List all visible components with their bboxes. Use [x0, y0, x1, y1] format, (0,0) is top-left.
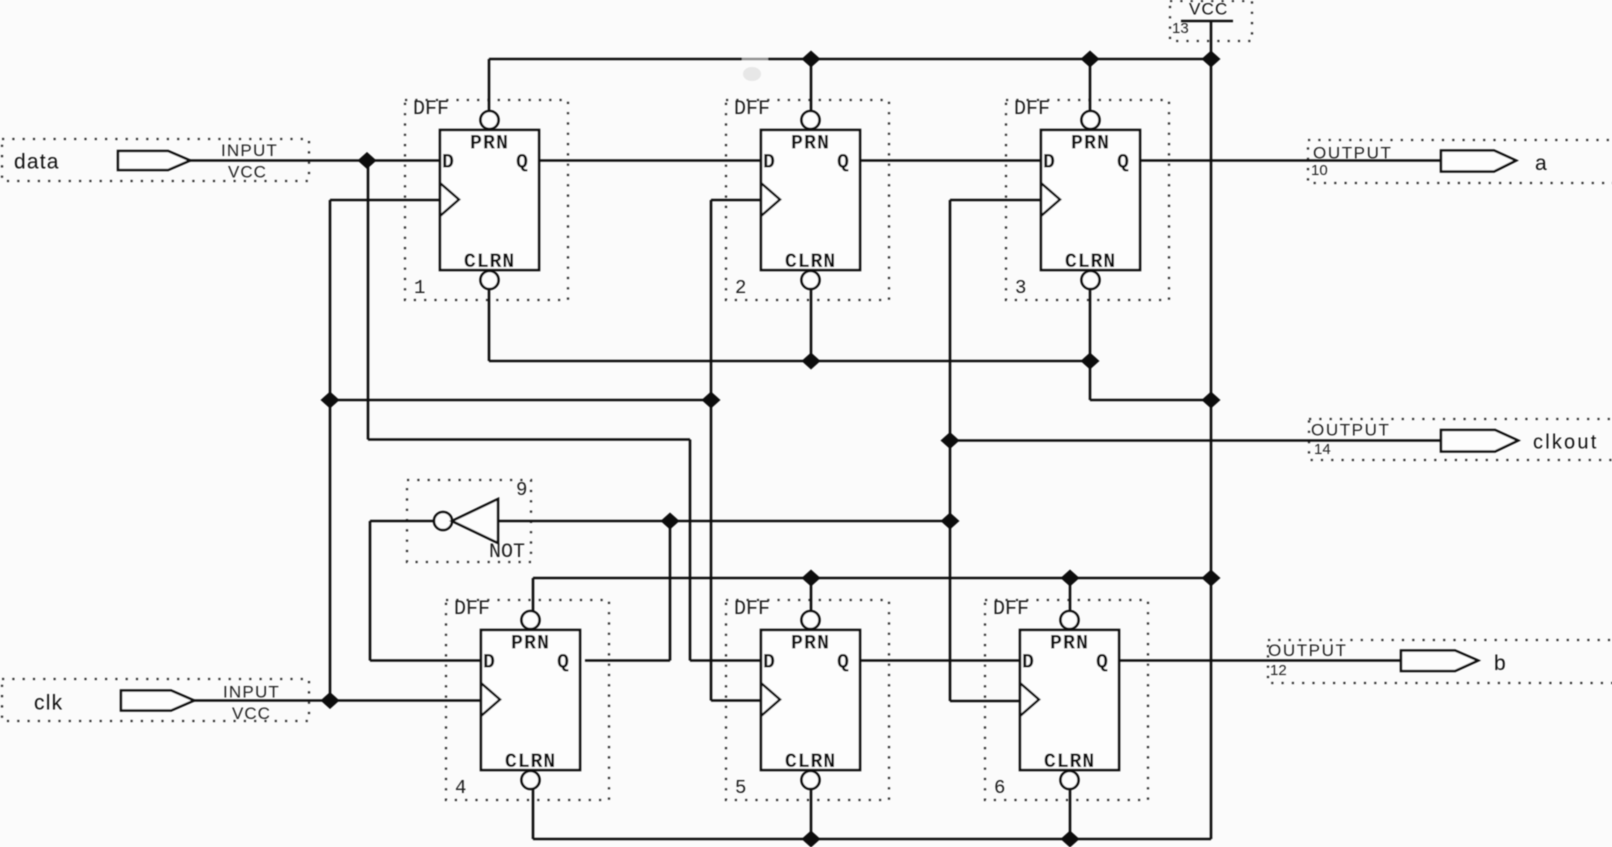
svg-text:Q: Q [837, 152, 849, 175]
svg-text:PRN: PRN [791, 133, 830, 156]
svg-text:CLRN: CLRN [785, 751, 836, 774]
svg-text:a: a [1535, 152, 1547, 175]
svg-text:CLRN: CLRN [785, 251, 836, 274]
svg-text:CLRN: CLRN [464, 251, 515, 274]
svg-text:Q: Q [557, 652, 569, 675]
svg-text:Q: Q [1117, 152, 1129, 175]
svg-text:VCC: VCC [232, 704, 271, 723]
svg-text:clkout: clkout [1533, 432, 1598, 454]
svg-text:DFF: DFF [413, 98, 449, 121]
svg-text:3: 3 [1015, 277, 1026, 299]
svg-text:OUTPUT: OUTPUT [1268, 641, 1347, 660]
svg-text:Q: Q [1096, 652, 1108, 675]
svg-text:9: 9 [516, 479, 527, 501]
svg-text:D: D [483, 652, 495, 675]
svg-text:CLRN: CLRN [1065, 251, 1116, 274]
svg-text:INPUT: INPUT [221, 141, 278, 160]
svg-text:D: D [1043, 152, 1055, 175]
svg-text:2: 2 [735, 277, 746, 299]
svg-text:10: 10 [1311, 162, 1328, 179]
svg-text:D: D [763, 652, 775, 675]
svg-text:DFF: DFF [1014, 98, 1050, 121]
svg-text:OUTPUT: OUTPUT [1313, 144, 1392, 163]
svg-text:D: D [442, 152, 454, 175]
svg-text:PRN: PRN [470, 133, 509, 156]
svg-text:DFF: DFF [734, 98, 770, 121]
svg-text:D: D [763, 152, 775, 175]
svg-text:PRN: PRN [1050, 633, 1089, 656]
svg-text:CLRN: CLRN [1044, 751, 1095, 774]
svg-text:INPUT: INPUT [223, 683, 280, 702]
svg-text:13: 13 [1172, 20, 1189, 37]
svg-text:Q: Q [516, 152, 528, 175]
svg-text:DFF: DFF [454, 598, 490, 621]
svg-text:b: b [1494, 652, 1506, 675]
svg-text:DFF: DFF [734, 598, 770, 621]
svg-text:PRN: PRN [511, 633, 550, 656]
svg-text:D: D [1022, 652, 1034, 675]
svg-text:PRN: PRN [791, 633, 830, 656]
svg-text:6: 6 [994, 777, 1005, 799]
svg-text:1: 1 [414, 277, 425, 299]
svg-text:CLRN: CLRN [505, 751, 556, 774]
svg-text:14: 14 [1314, 441, 1331, 458]
svg-text:clk: clk [34, 692, 63, 715]
svg-text:NOT: NOT [489, 541, 525, 564]
svg-text:OUTPUT: OUTPUT [1311, 421, 1390, 440]
svg-text:data: data [14, 151, 60, 174]
svg-text:VCC: VCC [228, 163, 267, 182]
svg-text:12: 12 [1270, 662, 1287, 679]
svg-text:5: 5 [735, 777, 746, 799]
svg-text:VCC: VCC [1189, 0, 1229, 19]
svg-text:Q: Q [837, 652, 849, 675]
svg-text:DFF: DFF [993, 598, 1029, 621]
svg-text:PRN: PRN [1071, 133, 1110, 156]
svg-text:4: 4 [455, 777, 466, 799]
